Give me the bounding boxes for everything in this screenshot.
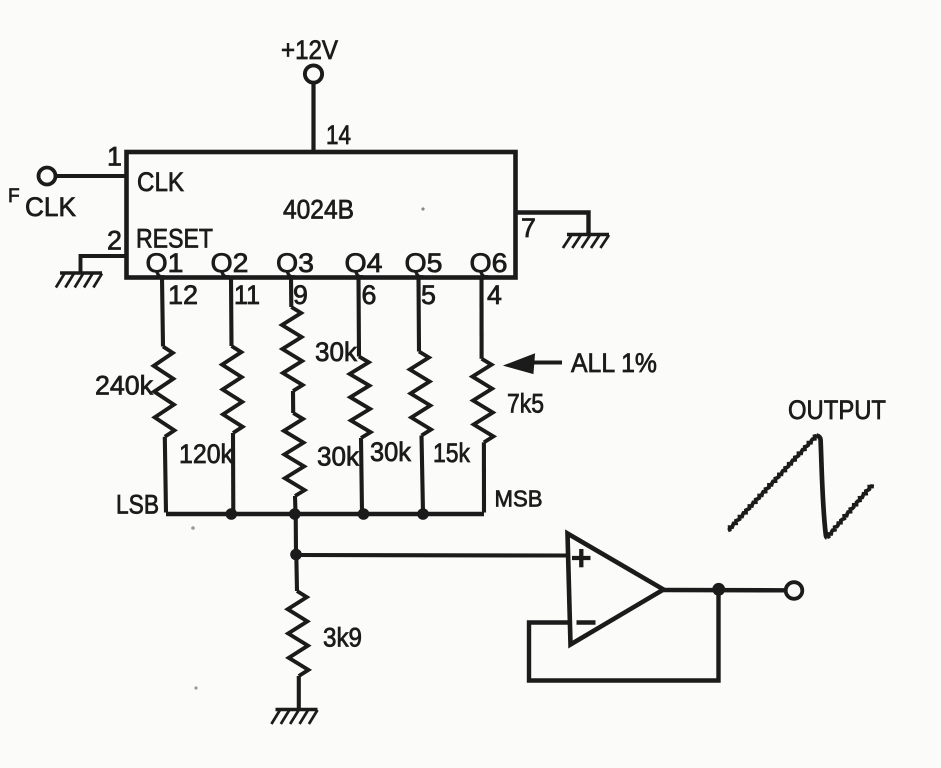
ground G1 at RESET pin [56, 273, 102, 288]
bus junction dot at x=363.5 [358, 508, 370, 520]
resistor R5 30k [350, 357, 371, 439]
wire Q5 pin 5 stub [416, 278, 421, 352]
svg-text:MSB: MSB [495, 486, 543, 512]
wire between R3 and R4 [291, 391, 295, 413]
wire R7 to bus [482, 442, 486, 512]
svg-text:30k: 30k [370, 437, 412, 467]
svg-text:6: 6 [362, 280, 377, 310]
svg-text:12: 12 [168, 280, 198, 310]
svg-text:Q1: Q1 [146, 248, 184, 278]
svg-text:3k9: 3k9 [323, 623, 362, 653]
svg-text:CLK: CLK [137, 167, 184, 197]
svg-text:15k: 15k [433, 438, 471, 468]
svg-text:240k: 240k [95, 371, 154, 401]
wire +12V terminal to pin 14 [311, 82, 315, 152]
output junction dot [712, 583, 725, 596]
resistor R7 7k5 [472, 359, 493, 443]
svg-text:ALL 1%: ALL 1% [571, 348, 657, 378]
wire summing node to op-amp + input [296, 553, 568, 558]
svg-text:CLK: CLK [25, 192, 76, 222]
callout arrow ALL 1% [505, 354, 563, 374]
wire R2 to bus [231, 433, 235, 513]
wire summing node down to R8 [294, 555, 299, 592]
wire Q3 pin 9 stub [289, 278, 293, 308]
svg-text:4024B: 4024B [283, 195, 354, 225]
svg-text:9: 9 [293, 280, 308, 310]
output terminal circle [786, 582, 803, 599]
sawtooth waveform rising ramp 1 [728, 436, 817, 531]
wire Q6 pin 4 stub [479, 278, 483, 359]
svg-text:4: 4 [487, 280, 502, 310]
wire R1 to bus [165, 437, 166, 513]
svg-text:Q4: Q4 [345, 248, 383, 278]
sawtooth waveform falling edge [817, 436, 828, 538]
op-amp output wire [664, 588, 786, 593]
svg-text:14: 14 [326, 120, 351, 150]
wire pin 2 to ground [81, 256, 127, 273]
svg-text:5: 5 [421, 280, 436, 310]
op-amp inverting - input marking [577, 620, 596, 625]
wire Q2 pin 11 stub [229, 278, 234, 347]
+12V supply terminal circle [305, 65, 322, 82]
svg-text:120k: 120k [179, 439, 234, 469]
svg-text:30k: 30k [317, 442, 360, 472]
wire bus to summing node [294, 514, 298, 554]
ground G2 at pin 7 [563, 235, 609, 249]
svg-text:+12V: +12V [281, 35, 338, 65]
svg-text:30k: 30k [315, 337, 358, 367]
wire R8 to ground [297, 676, 301, 709]
svg-text:7k5: 7k5 [507, 389, 544, 419]
wire R6 to bus [422, 436, 424, 513]
resistor R4 30k (lower of Q3 pair) [284, 413, 305, 496]
wire R4 to bus [293, 496, 298, 513]
IC U1 4024B body [127, 152, 516, 278]
svg-text:11: 11 [234, 280, 260, 310]
wire Q1 pin 12 stub [162, 278, 163, 347]
bus junction dot at x=423 [417, 508, 429, 520]
svg-text:1: 1 [107, 142, 122, 172]
resistor R8 3k9 [288, 591, 309, 676]
resistor R2 120k [222, 346, 243, 433]
svg-text:Q5: Q5 [405, 248, 443, 278]
svg-text:Q2: Q2 [211, 248, 249, 278]
resistor R1 240k [154, 347, 175, 437]
svg-text:Q3: Q3 [276, 248, 314, 278]
op-amp non-inverting + input marking [572, 549, 591, 567]
wire pin 7 to ground [516, 213, 589, 234]
summing bus wire LSB to MSB [166, 512, 484, 517]
feedback wire output to inverting input [529, 592, 719, 681]
svg-text:7: 7 [521, 213, 536, 243]
wire FCLK terminal to pin 1 [55, 174, 126, 178]
svg-text:F: F [8, 186, 20, 207]
svg-text:2: 2 [107, 226, 122, 256]
scan speck (paper noise) [421, 207, 424, 210]
sawtooth waveform rising ramp 2 [827, 484, 872, 537]
bus junction dot at x=294.8 [289, 508, 301, 520]
svg-text:LSB: LSB [116, 490, 159, 520]
bus junction dot at x=231.3 [226, 508, 238, 520]
wire Q4 pin 6 stub [356, 278, 361, 357]
wire R5 to bus [361, 438, 362, 513]
ground G3 below R8 [271, 710, 317, 725]
svg-text:OUTPUT: OUTPUT [788, 395, 886, 425]
resistor R6 15k [410, 352, 431, 436]
input terminal circle FCLK [39, 168, 56, 185]
op-amp U2 buffer triangle [568, 534, 664, 645]
svg-text:Q6: Q6 [470, 248, 508, 278]
summing node junction dot [290, 549, 302, 561]
resistor R3 30k (upper of Q3 pair) [282, 307, 303, 391]
